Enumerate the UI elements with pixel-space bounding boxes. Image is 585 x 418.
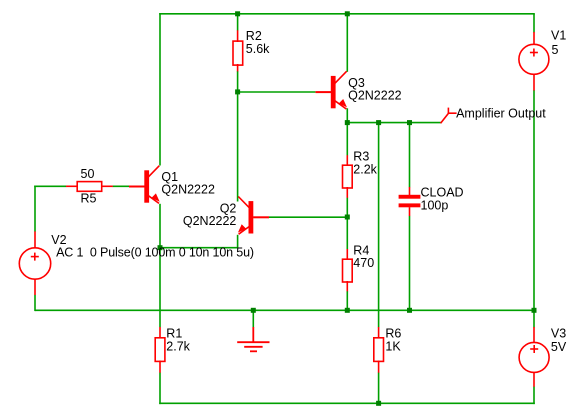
wire R6 bottom stub: [378, 373, 380, 405]
node junction top R2: [235, 11, 240, 16]
svg-text:R1: R1: [166, 327, 182, 341]
voltage source V1: [519, 29, 566, 91]
node junction output R6: [376, 120, 381, 125]
wire Q3 emitter stub: [346, 108, 348, 123]
resistor R5: [66, 167, 113, 206]
svg-text:2.2k: 2.2k: [353, 163, 377, 177]
wire Q2 emitter vertical: [237, 235, 239, 249]
transistor Q3: [316, 71, 402, 109]
svg-text:V3: V3: [551, 327, 566, 341]
wire top rail: [159, 13, 535, 15]
svg-text:Amplifier Output: Amplifier Output: [456, 107, 546, 121]
svg-text:R6: R6: [385, 327, 401, 341]
capacitor CLOAD: [399, 186, 464, 216]
svg-text:V1: V1: [551, 29, 566, 43]
wire R3 to R4: [346, 198, 348, 250]
wire R2 bottom stub: [237, 71, 239, 93]
svg-text:100p: 100p: [421, 199, 449, 213]
wire Q2 collector vertical: [237, 92, 239, 202]
wire Q2 base horizontal: [269, 216, 348, 218]
resistor R4: [343, 244, 375, 292]
wire V3 bottom stub: [533, 387, 535, 405]
svg-text:R3: R3: [353, 150, 369, 164]
node junction emitters: [158, 245, 163, 250]
node junction top Q3: [345, 11, 350, 16]
node junction R3/R4 Q2 base: [345, 215, 350, 220]
wire mid rail: [35, 309, 534, 311]
svg-text:5: 5: [552, 43, 559, 57]
wire Q1 collector vertical: [159, 13, 161, 166]
svg-text:Q2N2222: Q2N2222: [183, 214, 237, 228]
svg-text:5.6k: 5.6k: [246, 42, 270, 56]
svg-text:1K: 1K: [385, 340, 401, 354]
wire emitter join horizontal: [160, 247, 238, 249]
svg-text:50: 50: [81, 167, 95, 181]
node junction R6 bottom rail: [376, 401, 381, 406]
wire ground stub: [252, 310, 254, 327]
wire V1 bottom to mid rail: [533, 90, 535, 311]
wire output rail: [347, 122, 441, 124]
svg-text:5V: 5V: [551, 340, 567, 354]
wire R3 top stub: [346, 123, 348, 156]
svg-text:Q2N2222: Q2N2222: [161, 183, 215, 197]
transistor Q1: [129, 166, 215, 204]
svg-text:470: 470: [353, 256, 374, 270]
node Amplifier Output terminal: [441, 107, 547, 124]
wire V2 bottom stub: [34, 295, 36, 311]
node junction CLOAD bottom rail: [407, 308, 412, 313]
wire Q3 collector vertical: [346, 13, 348, 72]
ground: [237, 327, 269, 351]
wire R1 bottom to bottom rail: [159, 373, 161, 405]
wire CLOAD bottom vertical: [409, 216, 411, 311]
svg-text:2.7k: 2.7k: [166, 340, 190, 354]
node junction R4 bottom rail: [345, 308, 350, 313]
svg-text:R5: R5: [81, 192, 97, 206]
wire Q1 emitter down to R1: [159, 204, 161, 327]
resistor R1: [155, 327, 190, 373]
wire Q3 base rail: [237, 91, 316, 93]
wire R2 top stub: [237, 13, 239, 31]
node junction mid rail V3: [532, 308, 537, 313]
voltage source V2: [19, 231, 254, 295]
wire R5 right: [113, 185, 130, 187]
wire R5 left: [34, 185, 66, 187]
node junction R2 bottom / Q3 base: [235, 89, 240, 94]
wire V1 top stub: [533, 14, 535, 33]
svg-text:AC 1 0 Pulse(0 100m 0 10n 10n: AC 1 0 Pulse(0 100m 0 10n 10n 5u): [56, 246, 254, 260]
resistor R6: [374, 327, 402, 373]
svg-text:Q2N2222: Q2N2222: [348, 89, 402, 103]
wire R4 bottom stub: [346, 291, 348, 311]
wire V2 top vertical: [34, 186, 36, 232]
wire mid rail to V3 top: [533, 310, 535, 328]
resistor R2: [233, 29, 270, 71]
svg-text:R2: R2: [246, 29, 262, 43]
resistor R3: [343, 150, 378, 198]
node junction output left: [345, 120, 350, 125]
voltage source V3: [519, 327, 567, 387]
node junction ground: [251, 308, 256, 313]
node junction output CLOAD: [407, 120, 412, 125]
wire bottom rail: [159, 402, 535, 404]
wire CLOAD top vertical: [409, 122, 411, 188]
transistor Q2 (mirrored): [183, 197, 269, 235]
wire R6 top vertical: [378, 122, 380, 327]
